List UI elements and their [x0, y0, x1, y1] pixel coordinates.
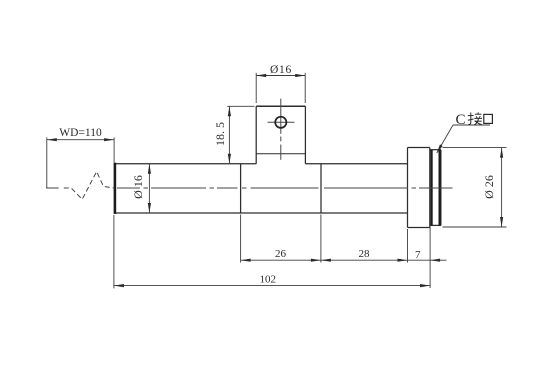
wire tube top edge left of port — [114, 163, 256, 165]
wire tube bottom edge — [114, 212, 408, 214]
svg-text:28: 28 — [359, 248, 371, 260]
tube left face (thick) — [114, 163, 117, 214]
svg-text:102: 102 — [260, 274, 277, 286]
node joint at x=240.6 — [240, 164, 242, 213]
zigzag break line — [64, 172, 114, 200]
port block inner edge — [256, 153, 305, 155]
svg-text:WD=110: WD=110 — [59, 127, 102, 139]
svg-text:7: 7 — [415, 249, 421, 261]
port axis centerline — [280, 99, 282, 160]
port block top edge — [256, 105, 305, 107]
port hole circle — [275, 117, 286, 128]
svg-text:Ø 26: Ø 26 — [482, 175, 496, 199]
ring thick right edge — [439, 150, 441, 226]
dimension 18.5 — [227, 106, 254, 164]
port hole crosshair — [268, 121, 295, 123]
dimension dia16 port — [256, 73, 305, 103]
label C-mount leader — [437, 125, 490, 153]
dimension dia16 tube — [148, 164, 150, 213]
svg-text:C: C — [456, 112, 466, 128]
svg-text:26: 26 — [275, 248, 287, 260]
svg-text:18. 5: 18. 5 — [213, 122, 227, 146]
svg-text:Ø 16: Ø 16 — [131, 175, 145, 199]
dimension WD=110 — [47, 137, 114, 187]
port block left side — [255, 106, 257, 164]
ring thread section outline — [430, 149, 441, 151]
wire tube top edge right of port — [305, 163, 407, 165]
ring thick left edge — [431, 150, 433, 226]
node joint at x=321 — [320, 164, 322, 213]
dimension 102 — [114, 215, 430, 288]
main axis centerline — [46, 187, 453, 189]
dimension row 26 / 28 / 7 — [241, 215, 447, 289]
glyph jie (approximated strokes) — [468, 112, 482, 125]
svg-text:Ø16: Ø16 — [270, 64, 292, 76]
glyph kou (box) — [484, 114, 493, 123]
port block right side — [304, 106, 306, 164]
dimension dia26 — [443, 148, 507, 227]
body C-mount cylinder outline — [408, 147, 430, 149]
